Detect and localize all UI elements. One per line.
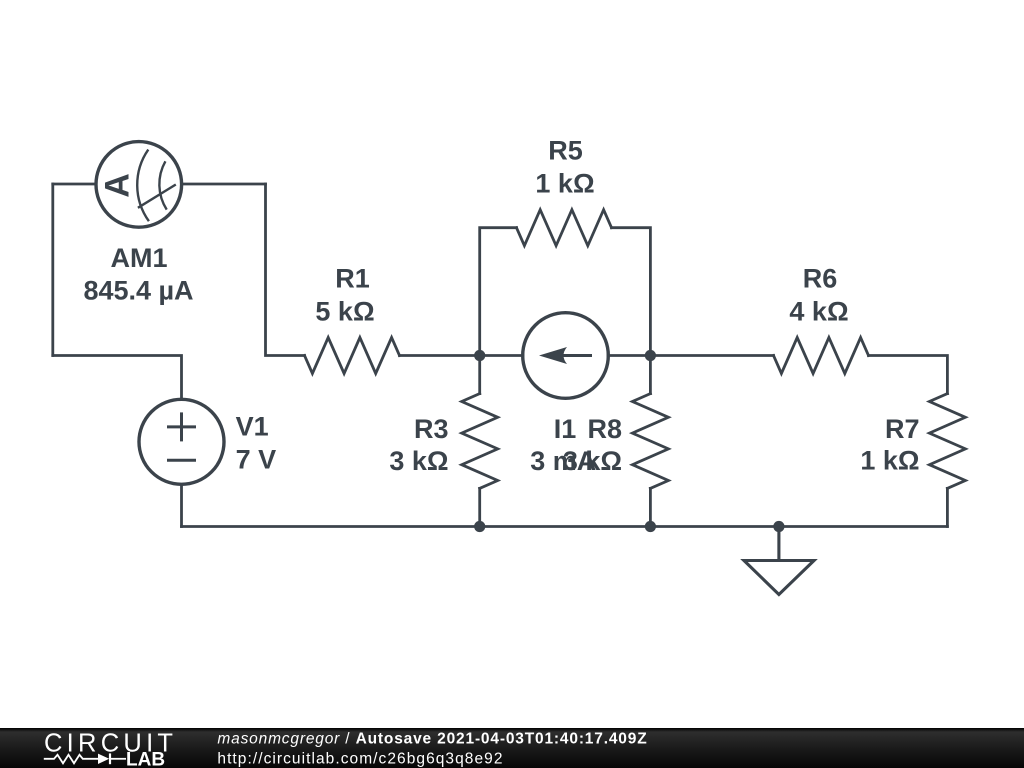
svg-text:3 kΩ: 3 kΩ [389,446,448,476]
svg-text:1 kΩ: 1 kΩ [860,446,919,476]
svg-text:A: A [99,173,137,198]
current source I1 [523,313,609,399]
svg-text:R5: R5 [548,136,583,166]
svg-text:R7: R7 [885,414,920,444]
node B junction [645,350,656,361]
resistor R8 [632,394,668,489]
resistor R5 [517,210,612,246]
svg-text:4 kΩ: 4 kΩ [789,297,848,327]
wire node A to I1 left terminal [480,354,523,357]
node C junction (R3 bottom) [474,521,485,532]
svg-text:V1: V1 [236,412,269,442]
voltage source V1 [139,399,224,484]
svg-text:masonmcgregor / Autosave 2021-: masonmcgregor / Autosave 2021-04-03T01:4… [217,731,647,748]
svg-text:http://circuitlab.com/c26bg6q3: http://circuitlab.com/c26bg6q3q8e92 [217,751,503,768]
svg-text:845.4 µA: 845.4 µA [83,276,193,306]
wire bottom-left horizontal to V1 top [53,356,182,399]
footer bar [0,728,1024,768]
svg-text:AM1: AM1 [110,243,167,273]
wire R3 top lead [478,356,481,394]
svg-text:R8: R8 [587,414,622,444]
svg-text:1 kΩ: 1 kΩ [535,169,594,199]
wire R3 bottom lead [478,488,481,526]
wire R7 bottom lead [946,488,949,526]
wire R1 right lead to node A [400,354,480,357]
ground [744,527,814,595]
wire R8 top lead [649,356,652,394]
wire ammeter right lead [183,183,266,186]
wire R6 to right corner down to R7 [869,356,948,394]
resistor R6 [774,338,869,374]
wire ammeter left lead [53,183,95,186]
wire I1 right terminal to node B [608,354,650,357]
svg-text:7 V: 7 V [236,445,277,475]
node E junction (ground tap) [773,521,784,532]
wire R5 loop right vertical [612,228,651,356]
resistor R7 [929,394,965,489]
svg-text:R6: R6 [803,264,838,294]
svg-text:3 kΩ: 3 kΩ [563,446,622,476]
wire node B to R6 [650,354,773,357]
node D junction (R8 bottom) [645,521,656,532]
wire right vertical down to R1 row [266,184,305,356]
svg-text:R3: R3 [414,414,449,444]
svg-text:I1: I1 [554,414,577,444]
wire R5 loop left vertical [480,228,517,356]
resistor R1 [305,338,400,374]
svg-text:5 kΩ: 5 kΩ [315,297,374,327]
wire left vertical [51,184,54,356]
wire R8 bottom lead [649,488,652,526]
svg-text:LAB: LAB [126,750,165,768]
node A junction [474,350,485,361]
svg-text:R1: R1 [335,264,370,294]
wire V1 bottom lead [180,485,183,526]
ammeter AM1 [96,142,182,228]
CircuitLab logo squiggle (resistor + diode) [44,753,126,764]
resistor R3 [462,394,498,489]
wire bottom bus [182,525,948,528]
